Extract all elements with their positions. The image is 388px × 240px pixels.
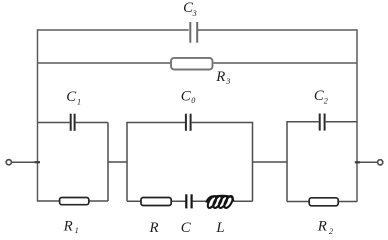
svg-text:3: 3 xyxy=(225,77,230,86)
svg-text:C: C xyxy=(181,220,191,236)
svg-text:3: 3 xyxy=(192,9,197,18)
svg-text:2: 2 xyxy=(324,96,328,105)
svg-text:R: R xyxy=(215,69,225,85)
capacitor C0 xyxy=(186,114,191,131)
left terminal xyxy=(6,160,40,165)
capacitor C1 xyxy=(71,114,75,131)
svg-text:2: 2 xyxy=(329,227,333,236)
inductor L xyxy=(206,195,234,209)
right terminal xyxy=(355,160,383,165)
wire: top rail left of C3 xyxy=(38,29,189,31)
right block outline xyxy=(287,122,357,202)
resistor R2 xyxy=(309,198,338,206)
svg-text:C: C xyxy=(183,0,193,16)
svg-text:1: 1 xyxy=(75,226,79,235)
svg-text:R: R xyxy=(317,219,327,235)
svg-text:C: C xyxy=(181,89,191,105)
wire: right vertical bus xyxy=(356,29,358,201)
wire: left block to middle block xyxy=(108,161,127,163)
wire: middle block to right block xyxy=(253,161,288,163)
svg-text:C: C xyxy=(66,89,76,105)
resistor R xyxy=(141,198,171,206)
svg-text:R: R xyxy=(63,219,73,235)
capacitor C2 xyxy=(320,114,325,131)
wire: left vertical bus xyxy=(37,29,39,201)
left block outline xyxy=(38,123,109,202)
svg-text:1: 1 xyxy=(77,97,81,106)
wire: second rail left of R3 xyxy=(38,62,171,64)
svg-text:C: C xyxy=(314,88,324,104)
wire: top rail right of C3 xyxy=(198,29,357,31)
wire: second rail right of R3 xyxy=(213,62,357,64)
svg-text:L: L xyxy=(215,220,224,236)
capacitor C3 xyxy=(190,22,197,43)
capacitor C xyxy=(186,194,191,208)
resistor R1 xyxy=(60,198,89,205)
middle block outline xyxy=(127,123,253,202)
svg-text:0: 0 xyxy=(191,96,195,105)
svg-text:R: R xyxy=(149,220,159,236)
resistor R3 xyxy=(171,58,213,70)
